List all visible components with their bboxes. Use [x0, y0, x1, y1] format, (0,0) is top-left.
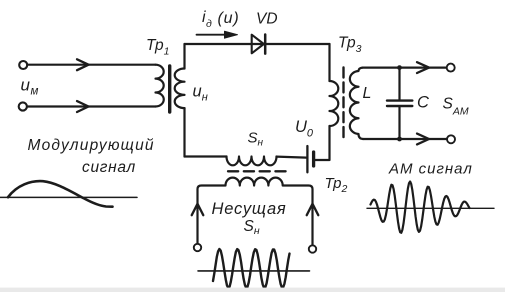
- junction node top: [397, 65, 402, 70]
- output terminal bottom: [447, 135, 455, 143]
- capacitor C top lead: [398, 68, 400, 100]
- transformer Tp1 primary winding: [156, 65, 164, 107]
- inductor L (Tp3 secondary): [350, 68, 363, 139]
- svg-text:ин: ин: [193, 83, 208, 104]
- modulating signal axis line: [0, 196, 137, 198]
- svg-text:Модулирующий: Модулирующий: [28, 137, 155, 154]
- svg-text:Sн: Sн: [244, 218, 260, 237]
- wire: Tp1 secondary top conductor: [183, 44, 185, 69]
- arrow on output bottom: [417, 134, 429, 145]
- svg-text:VD: VD: [256, 11, 278, 28]
- svg-text:Тр3: Тр3: [338, 35, 362, 56]
- wire: bottom rail right of winding: [277, 157, 307, 158]
- bottom scan strip: [0, 288, 505, 292]
- transformer Tp1 core: [168, 66, 171, 112]
- arrow on input bottom lead: [77, 101, 89, 112]
- wire: right rail upper segment: [328, 44, 330, 81]
- current arrow annotation line: [197, 34, 227, 36]
- transformer Tp1 secondary winding: [175, 69, 185, 109]
- transformer Tp2 core (dashed): [228, 170, 286, 172]
- svg-text:Sн: Sн: [248, 130, 264, 149]
- arrow on output top: [417, 62, 429, 73]
- Tp2 terminal right: [309, 245, 316, 252]
- junction node bottom: [397, 137, 402, 142]
- transformer Tp3 primary winding: [330, 81, 339, 126]
- carrier signal waveform: [213, 249, 290, 288]
- wire: input top lead: [28, 64, 156, 66]
- svg-text:Тр2: Тр2: [325, 175, 348, 195]
- svg-text:(и): (и): [218, 10, 240, 27]
- AM signal axis line: [367, 207, 494, 209]
- wire: bottom rail left of winding: [185, 155, 227, 157]
- input terminal top: [19, 61, 27, 69]
- svg-text:SАМ: SАМ: [443, 96, 469, 118]
- svg-text:C: C: [417, 94, 429, 112]
- svg-text:им: им: [21, 76, 39, 98]
- svg-text:U0: U0: [295, 118, 314, 140]
- svg-text:Тр1: Тр1: [146, 37, 169, 58]
- wire: right rail lower segment: [315, 126, 330, 160]
- svg-text:Несущая: Несущая: [212, 200, 287, 218]
- capacitor C bottom plate: [387, 105, 412, 107]
- arrow on input top lead: [77, 59, 89, 70]
- wire: Tp1 secondary bottom conductor: [183, 108, 185, 156]
- wire: output bottom: [363, 138, 447, 140]
- svg-text:АМ сигнал: АМ сигнал: [388, 161, 473, 178]
- wire: output top: [363, 66, 447, 68]
- input terminal bottom: [19, 102, 27, 110]
- svg-text:L: L: [363, 85, 372, 102]
- battery U0 negative plate (short): [312, 152, 315, 166]
- svg-text:сигнал: сигнал: [82, 159, 136, 176]
- wire: input bottom lead: [28, 105, 156, 107]
- output terminal top: [447, 64, 455, 72]
- svg-text:д: д: [206, 18, 212, 30]
- diode VD triangle: [252, 35, 264, 54]
- capacitor C top plate: [387, 99, 412, 101]
- arrow up on Tp2 left lead: [192, 204, 204, 215]
- capacitor C bottom lead: [398, 107, 400, 139]
- current arrow annotation head: [225, 31, 238, 38]
- wire: top rail: [185, 43, 330, 45]
- transformer Tp2 lower winding with leads: [198, 178, 313, 246]
- diode VD cathode bar: [264, 35, 267, 54]
- carrier signal axis line: [198, 270, 310, 272]
- Tp2 terminal left: [194, 244, 201, 251]
- modulating signal waveform: [8, 181, 113, 207]
- transformer Tp3 core (dashed): [342, 68, 344, 140]
- winding Sn (Tp2 upper): [227, 157, 277, 166]
- AM signal waveform: [371, 182, 470, 233]
- arrow up on Tp2 right lead: [307, 204, 319, 215]
- battery U0 positive plate (long): [306, 146, 308, 172]
